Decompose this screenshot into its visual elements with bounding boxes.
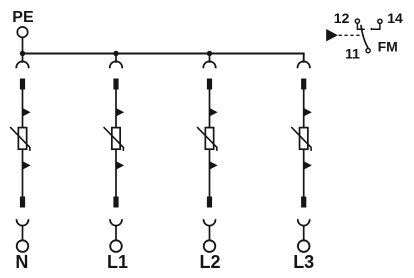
- thermal disconnect arrow upper (L2): [209, 108, 218, 117]
- thermal disconnect arrow lower (L2): [209, 161, 218, 170]
- connector socket bottom (L1): [110, 219, 122, 225]
- thermal disconnect arrow lower (L3): [303, 161, 312, 170]
- junction bus/L2: [207, 51, 212, 56]
- wire (L1 branch main): [115, 90, 117, 197]
- thermal disconnect arrow upper (N): [22, 108, 31, 117]
- contact point 12: [355, 19, 359, 23]
- plug pin bottom (N): [20, 197, 25, 208]
- thermal disconnect arrow upper (L3): [303, 108, 312, 117]
- terminal circle L1: [110, 240, 122, 252]
- varistor body (L1): [112, 128, 120, 150]
- connector socket top (L1): [110, 61, 122, 68]
- wire stub bus to L2 socket: [209, 54, 211, 63]
- node L3 branch: [291, 61, 312, 252]
- wire (L2 branch main): [209, 90, 211, 197]
- thermal disconnect arrow lower (L1): [116, 161, 125, 170]
- wire to terminal L3: [303, 226, 305, 241]
- varistor body (L3): [300, 128, 308, 150]
- varistor body (L2): [205, 128, 213, 150]
- contact point 11: [366, 49, 370, 53]
- thermal disconnect arrow lower (N): [22, 161, 31, 170]
- terminal circle N: [17, 240, 29, 252]
- plug pin bottom (L1): [113, 197, 118, 208]
- connector socket bottom (L3): [298, 219, 310, 225]
- connector socket top (L3): [298, 61, 310, 68]
- node L1 branch: [104, 61, 125, 252]
- varistor diagonal stroke (L1): [104, 127, 124, 151]
- svg-text:12: 12: [334, 10, 350, 26]
- plug pin bottom (L3): [301, 197, 306, 208]
- changeover contact lever 11-12: [361, 25, 368, 49]
- svg-text:L2: L2: [200, 252, 221, 272]
- plug pin top (L2): [207, 79, 212, 90]
- svg-text:PE: PE: [12, 9, 34, 26]
- thermal disconnect arrow upper (L1): [116, 108, 125, 117]
- wire stub bus to L1 socket: [115, 54, 117, 63]
- terminal circle L3: [298, 240, 310, 252]
- node N branch: [10, 61, 31, 252]
- plug pin top (L3): [301, 79, 306, 90]
- varistor body (N): [18, 128, 26, 150]
- connector socket top (N): [16, 61, 28, 68]
- wire PE down to bus: [22, 38, 24, 63]
- plug pin bottom (L2): [207, 197, 212, 208]
- junction PE/bus: [20, 51, 25, 56]
- wire to terminal L2: [209, 226, 211, 241]
- wire PE equipotential bus: [23, 54, 304, 63]
- wire dashed actuator link: [339, 34, 363, 36]
- junction bus/L1: [113, 51, 118, 56]
- plug pin top (N): [20, 79, 25, 90]
- contact seat 12: [357, 23, 364, 29]
- varistor diagonal stroke (N): [10, 127, 30, 151]
- terminal circle PE: [17, 27, 27, 37]
- connector socket top (L2): [203, 61, 215, 68]
- node L2 branch: [197, 61, 218, 252]
- svg-text:L1: L1: [107, 252, 128, 272]
- svg-text:11: 11: [345, 46, 360, 62]
- wire (N branch main): [22, 90, 24, 197]
- wire (L3 branch main): [303, 90, 305, 197]
- varistor diagonal stroke (L3): [291, 127, 311, 151]
- wire to terminal L1: [115, 226, 117, 241]
- varistor diagonal stroke (L2): [197, 127, 217, 151]
- contact point 14: [378, 19, 382, 23]
- svg-text:FM: FM: [378, 39, 398, 55]
- connector socket bottom (N): [17, 219, 29, 225]
- wire to terminal N: [22, 226, 24, 241]
- svg-text:N: N: [15, 252, 28, 272]
- remote signalling arrow (FM): [326, 29, 338, 41]
- svg-text:14: 14: [387, 10, 403, 26]
- terminal circle L2: [204, 240, 216, 252]
- svg-text:L3: L3: [293, 252, 314, 272]
- plug pin top (L1): [113, 79, 118, 90]
- contact seat 14: [371, 24, 380, 30]
- connector socket bottom (L2): [204, 219, 216, 225]
